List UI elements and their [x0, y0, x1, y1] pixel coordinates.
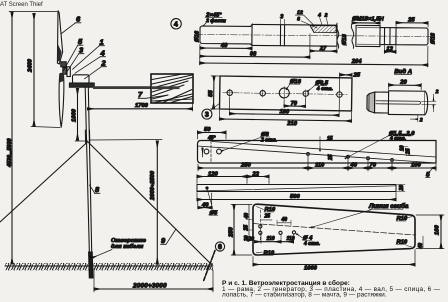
svg-text:110: 110: [287, 236, 295, 242]
mast (slightly skewed as in scan): [85, 87, 90, 266]
svg-text:Ø18: Ø18: [342, 34, 348, 46]
svg-text:27: 27: [319, 46, 327, 52]
ground hatching: [5, 263, 213, 271]
dim 20 right end: [397, 184, 405, 186]
frame bar: [69, 83, 94, 87]
hub cap: [61, 62, 66, 67]
svg-text:1000: 1000: [304, 266, 318, 272]
svg-text:100: 100: [435, 225, 441, 235]
dim 210: [218, 110, 220, 120]
dim 1000: [252, 257, 254, 267]
svg-text:4530...5030: 4530...5030: [7, 139, 13, 168]
svg-text:1000: 1000: [72, 108, 78, 122]
groove block: [380, 28, 396, 45]
svg-text:4 отв.: 4 отв.: [316, 86, 333, 92]
spoke side view bar: [197, 185, 396, 192]
dim 2400 line: [33, 14, 35, 127]
dim 27: [336, 47, 338, 53]
svg-text:250: 250: [240, 163, 251, 169]
plate centerline: [223, 93, 349, 95]
fold line dashed: [253, 224, 415, 236]
small holes on diagonal: [307, 153, 310, 156]
break lines: [336, 23, 339, 48]
dim 1700: [88, 108, 193, 110]
svg-text:98: 98: [250, 51, 257, 57]
dim 500: [196, 193, 198, 202]
collet body: [388, 91, 425, 115]
shaft section 2 (dia18): [252, 24, 337, 46]
svg-text:2000÷2500: 2000÷2500: [150, 170, 156, 201]
svg-text:2: 2: [101, 59, 107, 68]
svg-text:2: 2: [324, 13, 328, 19]
guy wire left: [0, 142, 88, 222]
svg-text:2: 2: [419, 117, 423, 123]
spoke1 dim row ticks: [197, 164, 199, 171]
svg-text:40: 40: [281, 217, 288, 223]
svg-text:2400: 2400: [28, 58, 34, 73]
svg-text:Ø16: Ø16: [430, 32, 436, 44]
upper rotor blade: [57, 11, 62, 65]
svg-text:1700: 1700: [135, 103, 149, 109]
svg-text:50: 50: [204, 127, 211, 133]
label O5 with leader: [207, 189, 213, 210]
collet dome end: [425, 91, 428, 115]
dim 50: [197, 131, 199, 140]
svg-text:4: 4: [317, 13, 321, 19]
svg-text:40: 40: [201, 202, 209, 208]
shaft end section (dia16): [396, 28, 428, 45]
plate outline: [220, 76, 352, 111]
guy anchor right: [204, 251, 216, 282]
left stacked dims 40/25/20: [248, 205, 250, 242]
dim 40: [199, 44, 201, 64]
dims 20/110/110 bottom: [260, 235, 262, 244]
svg-text:6: 6: [218, 244, 222, 251]
dim 100 right: [416, 214, 444, 216]
svg-text:лопасть, 7 — стабилизатор, 8 —: лопасть, 7 — стабилизатор, 8 — мачта, 9 …: [222, 291, 387, 299]
svg-text:25: 25: [264, 213, 271, 219]
svg-text:25: 25: [352, 72, 360, 78]
grain arrow: [202, 148, 204, 157]
dim 40 left: [197, 201, 199, 210]
hole 3 dia16: [279, 88, 289, 98]
dim 70: [368, 167, 392, 169]
dim 120: [196, 175, 198, 184]
svg-text:210: 210: [286, 121, 298, 127]
guy wire right: [88, 142, 212, 265]
dim 250 left: [231, 204, 252, 206]
centerline: [196, 34, 432, 36]
shaft section 1 (dia16): [200, 24, 252, 45]
keyway (hatched): [310, 26, 336, 33]
dashed hole construction vertical: [259, 210, 261, 242]
svg-text:4: 4: [100, 49, 106, 58]
svg-text:22: 22: [252, 171, 260, 177]
svg-text:70: 70: [291, 101, 298, 107]
svg-text:3: 3: [205, 112, 209, 119]
mast height extension line top: [9, 11, 57, 13]
slot width dim 2: [433, 94, 435, 101]
hole 1: [227, 90, 232, 95]
dim 110: [308, 167, 348, 169]
dim 40 right: [422, 236, 424, 248]
circled 3 (plate item): [202, 109, 212, 119]
dim 2000-2500: [156, 141, 158, 264]
svg-text:20: 20: [399, 185, 405, 192]
dim 2000-2500 extension top: [90, 139, 162, 142]
dim 100: [392, 167, 436, 169]
dim 180: [228, 97, 230, 115]
svg-text:180: 180: [279, 109, 290, 115]
slot: [376, 101, 421, 105]
dim 2000-3000: [93, 268, 95, 292]
spoke strip outline: [198, 141, 437, 164]
svg-text:40: 40: [418, 243, 424, 250]
collet first section: [375, 92, 389, 113]
svg-text:500: 500: [290, 194, 300, 200]
svg-text:4 отв.: 4 отв.: [389, 136, 406, 142]
svg-text:для кабеля: для кабеля: [111, 243, 144, 250]
hole O8 a: [204, 149, 209, 154]
hole O8 b: [217, 149, 222, 154]
collet nose: [367, 92, 375, 113]
svg-text:45°: 45°: [207, 135, 217, 141]
blade outline: [253, 204, 415, 255]
svg-text:250: 250: [229, 227, 235, 238]
svg-text:4 отв.: 4 отв.: [303, 241, 320, 247]
dim 25 (right end): [395, 21, 397, 26]
dim 70: [283, 100, 285, 107]
svg-text:25: 25: [328, 154, 334, 161]
dim 12 (groove): [383, 46, 385, 54]
dim 40: [348, 167, 368, 169]
svg-text:40: 40: [244, 213, 250, 220]
boom end inside vane: [151, 86, 180, 89]
svg-text:110: 110: [267, 236, 275, 242]
svg-text:15: 15: [327, 136, 333, 142]
svg-text:25: 25: [243, 225, 249, 232]
svg-text:40: 40: [350, 163, 358, 169]
cut diagonal B: [212, 142, 436, 158]
svg-text:12: 12: [386, 46, 393, 52]
cut diagonal A: [198, 146, 437, 163]
hole 4: [303, 91, 308, 96]
dim 98: [309, 34, 311, 59]
svg-text:ØМ18×1,5Н: ØМ18×1,5Н: [352, 16, 384, 22]
dim 250: [198, 167, 308, 169]
hub blade-root piece: [63, 67, 67, 74]
tail vane: [151, 74, 193, 103]
dim 204: [427, 46, 429, 67]
tail boom: [93, 86, 180, 89]
svg-text:40: 40: [220, 43, 228, 49]
svg-text:2000÷3000: 2000÷3000: [132, 283, 167, 290]
circled 6 (blade item): [215, 242, 224, 251]
mast buried part: [89, 252, 93, 278]
bend dashed line left: [210, 141, 212, 164]
ground line: [5, 265, 213, 267]
svg-text:2: 2: [435, 89, 439, 95]
hub bearing: [67, 67, 70, 77]
blade holes: [259, 225, 262, 228]
cut diagonal: [197, 186, 396, 191]
hole in bar: [205, 186, 208, 189]
svg-text:100: 100: [411, 163, 421, 169]
svg-text:55: 55: [208, 90, 214, 97]
dim 1000 vertical: [77, 89, 79, 141]
dim 25 top right: [338, 73, 340, 91]
cable hole in mast: [89, 256, 92, 259]
svg-text:70: 70: [370, 163, 377, 169]
dim 55: [211, 75, 219, 77]
svg-text:20: 20: [248, 236, 255, 242]
svg-text:1: 1: [100, 38, 104, 47]
svg-text:2 отв.: 2 отв.: [260, 138, 277, 144]
hole 2: [260, 90, 265, 95]
groove on dia18: [279, 25, 281, 46]
svg-text:120: 120: [208, 171, 218, 177]
svg-text:Линия сгиба: Линия сгиба: [368, 202, 409, 210]
generator: [73, 75, 90, 84]
guy attach collar: [85, 130, 90, 143]
svg-text:4: 4: [174, 21, 178, 28]
svg-text:25: 25: [406, 148, 412, 155]
dim 22: [268, 175, 270, 184]
svg-text:2 фаски: 2 фаски: [205, 17, 226, 24]
svg-text:8: 8: [297, 16, 300, 22]
svg-text:110: 110: [315, 163, 325, 169]
thread section M18: [356, 25, 380, 46]
slot bottom dim 2: [417, 115, 419, 122]
vane texture lines: [152, 75, 192, 103]
svg-text:AT Screen Thief: AT Screen Thief: [0, 2, 43, 8]
circled 4 (shaft item): [171, 19, 181, 29]
svg-text:204: 204: [351, 59, 362, 65]
extension line bottom blade tip: [31, 127, 60, 128]
lower rotor blade: [59, 73, 64, 127]
svg-text:25: 25: [407, 17, 415, 23]
dim 4530...5030 line: [11, 12, 13, 264]
hole 5: [337, 92, 342, 97]
